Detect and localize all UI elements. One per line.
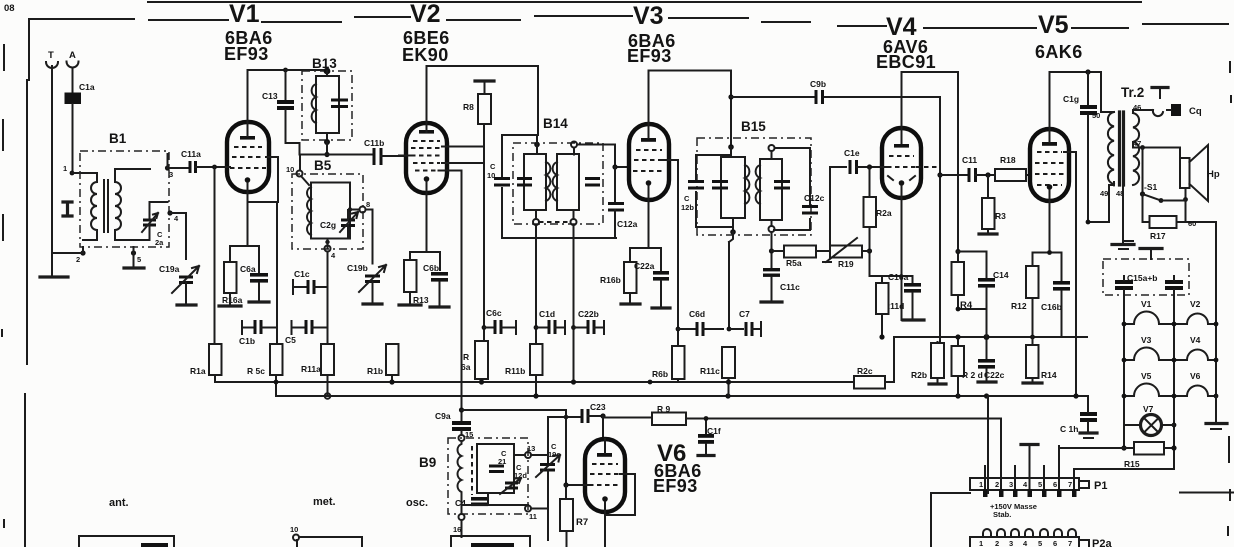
junction signal line [324, 152, 329, 157]
capacitor C13 [262, 91, 300, 155]
capacitor C12b [681, 182, 704, 213]
svg-text:R 5c: R 5c [247, 366, 265, 376]
junction C23/V6 plate [600, 413, 605, 418]
node 2 [76, 247, 86, 264]
wire node3 to C11a [168, 154, 189, 168]
transformer B1 secondary coil [115, 178, 121, 232]
B13 bottom pin [324, 139, 330, 145]
B15 right loop with C12c [774, 148, 810, 230]
svg-text:C1e: C1e [844, 148, 860, 158]
P1 pin numbers [979, 480, 1072, 489]
junction (R3 tap) [985, 172, 990, 177]
svg-text:T: T [48, 50, 54, 61]
B15 primary capacitor [712, 182, 728, 189]
svg-text:7: 7 [1068, 480, 1072, 489]
V6 grid wire [566, 484, 589, 486]
wire C1e feed [830, 167, 846, 251]
tube V6 [585, 439, 625, 547]
wire node11 to C19c line [531, 508, 548, 510]
svg-text:C9a: C9a [435, 411, 451, 421]
Tr2 primary coil [1101, 112, 1114, 185]
resistor R4 [952, 262, 973, 311]
V4 cathode wire down [901, 198, 903, 320]
V4 plate wire to R4 [902, 72, 959, 262]
label +150V Masse Stab. [990, 502, 1037, 519]
B14 bottom loop wire [502, 237, 616, 239]
resistor R5c bottom lead [275, 375, 277, 396]
svg-text:C1c: C1c [294, 269, 310, 279]
svg-text:C5: C5 [285, 335, 296, 345]
wire top rail to B13 top pin [286, 69, 326, 71]
oscillator coil box B9 [419, 438, 528, 514]
resistor R2b [911, 342, 944, 383]
svg-text:C1g: C1g [1063, 94, 1079, 104]
C9b wire [731, 96, 940, 98]
junction speaker/switch [1140, 145, 1145, 150]
tube V4 [882, 128, 921, 198]
trimmer capacitor C2g [320, 210, 358, 238]
resistor R11d [876, 283, 904, 337]
antenna coil unit box (bottom) [79, 536, 174, 547]
capacitor C6b [423, 263, 448, 307]
B5 inner tank box [311, 183, 350, 239]
capacitor C16a [888, 272, 921, 320]
svg-text:50: 50 [1092, 111, 1100, 120]
resistor R8 [463, 81, 491, 124]
junction C23 left tap [564, 415, 569, 420]
svg-text:C6a: C6a [240, 264, 256, 274]
resistor R15 [1103, 442, 1174, 469]
junction V5 cathode [1047, 250, 1052, 255]
resistor R3 [982, 175, 1006, 234]
svg-text:C1b: C1b [239, 336, 255, 346]
wire R15 left to P1 pin6 [1059, 446, 1103, 478]
B15 top-left pin [728, 144, 734, 150]
svg-text:Hp: Hp [1207, 169, 1220, 180]
capacitor C1d [534, 309, 565, 334]
speaker Hp [1180, 145, 1220, 201]
B14 top-left pin [534, 135, 540, 154]
frame left border (dashed long) [25, 19, 29, 547]
wire R19 to junction [866, 250, 870, 252]
svg-text:R1a: R1a [190, 366, 206, 376]
resistor R11a [301, 344, 334, 396]
junction C9b rail [728, 94, 733, 99]
capacitor C1g [1063, 72, 1097, 222]
svg-text:3: 3 [1009, 480, 1013, 489]
B14 secondary capacitor [585, 179, 600, 186]
svg-text:C11b: C11b [364, 138, 384, 148]
V2 plate wire to B14 [427, 66, 539, 135]
loop antenna symbol I [63, 202, 72, 216]
wire node8 to C19b [366, 210, 373, 264]
svg-text:C1d: C1d [539, 309, 555, 319]
svg-text:Stab.: Stab. [993, 510, 1011, 519]
B5 coil [307, 187, 311, 235]
detector wire to R5a [772, 250, 785, 252]
ground (R2b) [929, 382, 946, 385]
capacitor C4 [455, 497, 488, 508]
wire P1 pin1 lead [931, 492, 970, 494]
capacitor C7 [729, 309, 761, 336]
svg-text:V3: V3 [1141, 335, 1152, 345]
junction R4 bottom [956, 307, 961, 312]
IF transformer box B14 [513, 116, 603, 224]
capacitor C22a [634, 261, 669, 308]
junction R11c bus [726, 379, 731, 384]
wire C13 branch [285, 70, 287, 99]
P2a pin loops [983, 529, 1076, 537]
ground (heater rail right) [1206, 396, 1227, 429]
trimmer capacitor C19c [536, 442, 561, 540]
B9 inner box [477, 444, 514, 493]
svg-text:C16b: C16b [1041, 302, 1062, 312]
heater rail mid [1173, 295, 1175, 469]
Tr2 primary bottom wire [1088, 182, 1114, 222]
capacitor C9a [435, 411, 471, 435]
heater lamp V3 [1124, 335, 1174, 360]
capacitor C15b [1165, 276, 1183, 295]
resistor R9 [652, 404, 686, 425]
wire C14 branch [958, 252, 987, 278]
svg-text:C19b: C19b [347, 263, 368, 273]
B13 top pin [324, 68, 331, 75]
dial lamp V7 [1124, 404, 1174, 436]
switch S1 [1140, 148, 1164, 223]
svg-text:EF93: EF93 [627, 46, 672, 66]
junction R2d [955, 334, 960, 339]
ground (R16b) [621, 302, 640, 305]
svg-text:R8: R8 [463, 102, 474, 112]
ground (R16a) [219, 304, 241, 307]
capacitor C1b [239, 320, 277, 346]
B15 left loop with C12b [696, 155, 731, 227]
resistor R18 [995, 155, 1030, 181]
svg-text:C: C [684, 194, 690, 203]
svg-text:B15: B15 [741, 119, 766, 134]
junction R7 tap [563, 482, 568, 487]
svg-text:Tr.2: Tr.2 [1121, 85, 1144, 100]
heater lamp V2 [1174, 299, 1216, 324]
svg-text:P1: P1 [1094, 480, 1107, 492]
svg-text:C6b: C6b [423, 263, 439, 273]
node 13 [514, 444, 535, 458]
B1 winding connect wires [83, 169, 150, 240]
svg-text:8: 8 [366, 200, 370, 209]
wire C9b line down to R2b [939, 97, 941, 343]
capacitor C11a [181, 149, 227, 173]
tuning unit box met (bottom) [297, 537, 362, 547]
label 6BA6 EF93 (V6) [653, 461, 702, 496]
wire speaker to lamp rail [1161, 200, 1216, 397]
ground (C22a) [652, 306, 670, 309]
junction C22c [984, 334, 990, 340]
svg-text:C: C [490, 162, 496, 171]
svg-text:6AK6: 6AK6 [1035, 42, 1083, 62]
V4 diode stub [916, 166, 938, 168]
heater lamp V1 [1124, 299, 1174, 324]
wire B13 to signal line [326, 142, 328, 154]
V2 cathode split [410, 193, 440, 270]
svg-text:1: 1 [979, 480, 983, 489]
V5 cathode split [1033, 253, 1062, 281]
svg-text:V5: V5 [1038, 11, 1069, 39]
svg-text:C13: C13 [262, 91, 278, 101]
C15 chassis T [1124, 241, 1162, 259]
supply wire to P1 pin2 [603, 418, 1001, 421]
Tr2 pin labels [1092, 103, 1141, 198]
svg-text:10: 10 [290, 525, 298, 534]
B15 primary tank box [721, 147, 745, 230]
B14 bottom-left pin [533, 210, 539, 225]
svg-text:osc.: osc. [406, 497, 428, 509]
connector P1 [970, 478, 1107, 492]
wire mid rail to P1 pin7 [1074, 469, 1174, 478]
junction (C12a tap) [612, 164, 617, 169]
svg-text:C6d: C6d [689, 309, 705, 319]
wire B14 right pin down to C22b and bus [573, 225, 575, 382]
transformer box B1 [80, 131, 169, 247]
node 16 [453, 514, 465, 537]
svg-text:3: 3 [1009, 539, 1013, 547]
svg-text:R7: R7 [576, 517, 588, 528]
svg-text:R15: R15 [1124, 459, 1140, 469]
capacitor C9b [810, 79, 826, 104]
B14 secondary tank box [557, 154, 579, 210]
node 10 [286, 165, 303, 177]
V1 cathode split [230, 202, 259, 273]
svg-text:V5: V5 [1141, 371, 1152, 381]
resistor R1a body [190, 344, 222, 376]
ground (R3) [979, 232, 997, 235]
resistor R2c (in AVC bus) [848, 337, 894, 389]
svg-text:R6b: R6b [652, 369, 668, 379]
B14 primary coil [546, 162, 550, 201]
svg-text:5: 5 [137, 255, 141, 264]
svg-text:EF93: EF93 [653, 476, 698, 496]
frame right edge marks [1228, 62, 1231, 535]
svg-text:R3: R3 [995, 211, 1006, 221]
junction (R19 wire) [867, 248, 872, 253]
heater rail left [1123, 295, 1125, 448]
wire grid leak chain [869, 167, 871, 197]
svg-text:R5a: R5a [786, 258, 802, 268]
svg-text:C12a: C12a [617, 219, 638, 229]
capacitor C11c [763, 254, 800, 302]
junction R15 right [1171, 445, 1176, 450]
V3 grid AGC side wire [662, 160, 678, 346]
capacitor C15a [1115, 276, 1133, 295]
trimmer capacitor C19b [347, 263, 386, 304]
tube V1 [227, 122, 269, 202]
junction R11d to node line [879, 334, 884, 339]
resistor R17 [1143, 216, 1197, 241]
resistor R2d [952, 337, 983, 396]
capacitor C1a [65, 82, 95, 172]
AVC bus (upper) [215, 375, 854, 382]
V2 screen stubs to dropper [442, 147, 484, 164]
svg-text:C22b: C22b [578, 309, 599, 319]
node 5 [131, 247, 141, 267]
wire node2 to antenna line [52, 253, 83, 276]
capacitor C5 [285, 320, 328, 345]
B15 primary coil [745, 165, 749, 204]
B15 secondary capacitor [774, 182, 790, 189]
P1 pin4 chassis T [1021, 443, 1038, 446]
svg-text:R16a: R16a [222, 295, 243, 305]
svg-text:1: 1 [63, 164, 67, 173]
svg-text:10: 10 [286, 165, 294, 174]
B13 coil [312, 84, 316, 123]
node 4 (B5 bottom) [325, 239, 337, 261]
ground (R14) [1023, 381, 1042, 384]
capacitor C6d [676, 309, 723, 336]
resistor R14 [1026, 337, 1057, 383]
node 1 [63, 164, 95, 175]
junction osc wire [459, 407, 464, 412]
B5 coil top connect [301, 176, 309, 185]
svg-text:5: 5 [1038, 480, 1042, 489]
signal wire B13/B5 to C11b [300, 154, 372, 156]
svg-text:ant.: ant. [109, 497, 129, 509]
junction speaker bottom [1183, 197, 1188, 202]
B14 bottom-right pin [571, 210, 577, 225]
B14 bottom dashed link [539, 221, 571, 223]
svg-text:V4: V4 [1190, 335, 1201, 345]
svg-text:R19: R19 [838, 259, 854, 269]
IF transformer box B15 [697, 119, 811, 235]
potentiometer R19 [823, 238, 869, 269]
V6 plate wire [602, 416, 604, 439]
B14 primary tank box [524, 154, 546, 210]
node 15 [459, 430, 474, 441]
capacitor C1c [293, 269, 328, 294]
wire R1a feed [214, 167, 216, 344]
resistor R1b [367, 344, 399, 382]
junction V5 screen bus [1073, 393, 1078, 398]
C2a connect wires [134, 202, 168, 240]
ground (C19a) [177, 303, 196, 306]
svg-text:V1: V1 [1141, 299, 1152, 309]
junction (R2a tap) [867, 164, 872, 169]
resistor R12 [1011, 266, 1039, 337]
svg-text:V6: V6 [1190, 371, 1201, 381]
svg-text:C11a: C11a [181, 149, 201, 159]
V1 screen side loop [248, 157, 278, 202]
junction Tr2 bottom [1086, 220, 1091, 225]
B15 top-right pin [769, 145, 775, 151]
heater lamp V5 [1124, 371, 1174, 396]
oscillator feedback wire [462, 410, 567, 485]
wire B14 secondary to V3 [577, 145, 629, 168]
tube V5 [1030, 129, 1069, 252]
svg-text:R18: R18 [1000, 155, 1016, 165]
wire B14 left pin down to C1d and bus [535, 225, 537, 396]
ground (C16a / V4 cathode) [903, 318, 924, 321]
junction at C13 branch [283, 68, 288, 73]
antenna terminal T [46, 50, 58, 260]
resistor R6b [652, 346, 685, 382]
supply T terminal (R8) [475, 79, 494, 82]
bus junction dots [274, 379, 653, 384]
svg-text:60: 60 [1188, 219, 1196, 228]
external speaker jack T [1159, 88, 1161, 98]
B9 bottom wire [462, 493, 529, 514]
svg-text:A: A [69, 50, 76, 61]
frame left outer dash marks [2, 45, 4, 527]
screen/AGC node line [894, 336, 1087, 338]
svg-text:2a: 2a [155, 238, 164, 247]
junction (C11 tap) [937, 172, 942, 177]
P1 pins [983, 420, 1077, 497]
V2 grid wire from C11b [399, 155, 410, 157]
V3 cathode split [630, 200, 661, 271]
V2 oscillator grid wire down to C9a [439, 171, 462, 422]
ground (C6a) [249, 300, 269, 303]
svg-text:R12: R12 [1011, 301, 1027, 311]
capacitor C12a [608, 167, 638, 238]
connector Cq [1167, 104, 1202, 117]
node 11 [525, 506, 537, 522]
svg-text:EF93: EF93 [224, 44, 269, 64]
svg-text:R2c: R2c [857, 366, 873, 376]
junction R4 top / C14 [955, 249, 960, 254]
resistor R7 [560, 485, 588, 547]
heater lamp V4 [1174, 335, 1216, 360]
svg-text:V7: V7 [1143, 404, 1154, 414]
capacitor C1e [844, 148, 886, 174]
resistor R11b [505, 344, 543, 382]
B14 feed loop with C10 [502, 135, 537, 238]
junction lamp left rail [1121, 445, 1126, 450]
node 4 [167, 210, 179, 223]
top page border line [148, 1, 1141, 3]
svg-text:EBC91: EBC91 [876, 52, 936, 72]
svg-text:met.: met. [313, 496, 336, 508]
svg-text:C23: C23 [590, 402, 606, 412]
svg-text:08: 08 [4, 3, 15, 14]
svg-text:V2: V2 [410, 0, 441, 28]
svg-text:R2a: R2a [876, 208, 892, 218]
B15 bottom-right pin [769, 226, 775, 251]
svg-text:11: 11 [529, 512, 537, 521]
svg-text:C9b: C9b [810, 79, 826, 89]
resistor R13 [404, 260, 429, 305]
ground (C6b) [430, 305, 449, 308]
wire node4 to C19a [170, 213, 186, 259]
resistor R2a [864, 197, 892, 276]
wire R11d/C16a split [870, 276, 913, 283]
B13 pin wires [326, 71, 328, 142]
capacitor C6c [482, 308, 516, 334]
Tr2 secondary top wire to jack [1133, 110, 1163, 116]
svg-text:6a: 6a [461, 362, 471, 372]
ground (node 5) [124, 266, 144, 269]
junction (R1a tap) [212, 165, 217, 170]
capacitor C12c [802, 193, 825, 213]
IF transformer box B5 [292, 158, 363, 249]
transformer B1 core [104, 180, 108, 232]
wire bus2 feed to P1 pin2 [1000, 419, 1002, 420]
ground (C1f) [698, 454, 714, 457]
frame top line with gaps for tube labels [29, 16, 1228, 28]
B14 secondary coil [553, 162, 557, 201]
V5 screen side wire to bus [1064, 152, 1076, 396]
B9 coil [457, 441, 461, 494]
svg-text:V1: V1 [229, 0, 260, 28]
resistor R16a [222, 262, 243, 306]
ground (C1h) [1080, 433, 1097, 438]
